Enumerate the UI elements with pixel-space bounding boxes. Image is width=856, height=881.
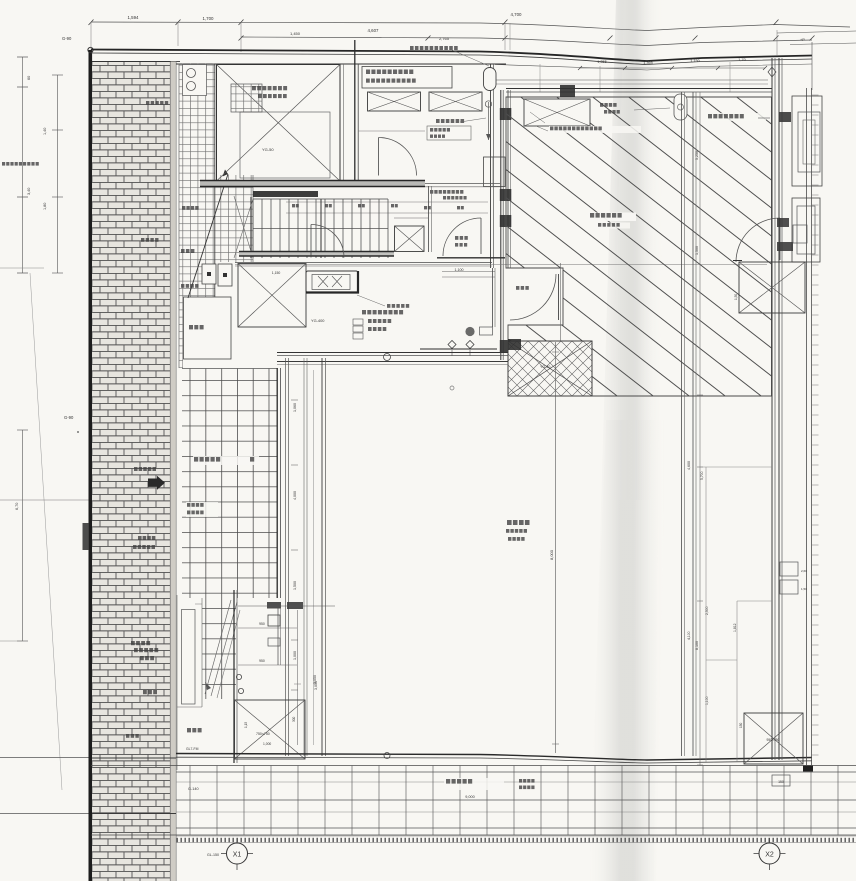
brick wall annotations (126, 101, 168, 738)
svg-text:2,60: 2,60 (801, 569, 807, 573)
corridor walls right of stairs (394, 186, 432, 252)
lift space label (706, 113, 770, 121)
page fold crease shadow (588, 0, 666, 881)
svg-text:1,50: 1,50 (801, 587, 807, 591)
porch fine tile strip (179, 64, 253, 369)
crossed tile box below lightwell (508, 341, 592, 396)
stair treads (234, 191, 488, 258)
courtyard boundary top (277, 339, 521, 390)
courtyard label (506, 520, 530, 541)
corridor wall x500-511 with blocks (484, 90, 512, 360)
svg-text:6,70: 6,70 (15, 503, 19, 510)
svg-text:8,100: 8,100 (695, 641, 699, 650)
svg-text:1,70: 1,70 (738, 58, 745, 62)
svg-text:300: 300 (292, 716, 296, 722)
svg-text:+P: +P (800, 38, 805, 42)
approach label (186, 456, 259, 517)
svg-text:4,600: 4,600 (687, 461, 691, 470)
svg-text:1,80: 1,80 (43, 203, 47, 210)
diagonal hatched lightwell region (506, 85, 772, 396)
right nested rooms top (779, 96, 822, 262)
EV crossed box (734, 262, 805, 313)
pocket with door arc (into lightwell) (510, 263, 563, 341)
courtyard east wall lines (682, 92, 697, 756)
svg-text:1,060: 1,060 (293, 403, 297, 412)
pedestrian road tiles (91, 766, 856, 836)
south approach ramp (202, 598, 240, 699)
svg-text:4,100: 4,100 (687, 631, 691, 640)
right double walls (772, 58, 782, 760)
storage crossed box middle-left (238, 264, 325, 328)
svg-text:1,50: 1,50 (734, 294, 738, 300)
dotted curb band (176, 836, 856, 843)
svg-text:1,812: 1,812 (733, 623, 737, 632)
svg-text:YG-400: YG-400 (311, 318, 325, 323)
svg-text:950×950: 950×950 (767, 738, 780, 742)
right small meter boxes (780, 562, 807, 594)
svg-text:GL-150: GL-150 (207, 853, 219, 857)
svg-text:1,450: 1,450 (290, 31, 301, 36)
brick wall strip (west elevation) (92, 62, 180, 881)
grid reference circle X1 (207, 838, 253, 870)
svg-text:1,100: 1,100 (705, 696, 709, 705)
interior wall band above stairs (200, 181, 500, 200)
svg-text:3,40: 3,40 (27, 188, 31, 195)
svg-text:60: 60 (27, 76, 31, 80)
svg-text:1,500: 1,500 (695, 246, 699, 255)
svg-text:YG-40: YG-40 (540, 365, 550, 369)
svg-text:150: 150 (739, 722, 743, 728)
stair dimension blobs (292, 204, 464, 209)
svg-text:4,700: 4,700 (511, 12, 523, 17)
svg-text:G-140: G-140 (188, 787, 199, 791)
svg-text:1,40: 1,40 (43, 128, 47, 135)
stair bottom wall (239, 252, 394, 257)
dumbwaiter crossed box (395, 226, 425, 252)
svg-text:G-90: G-90 (62, 36, 72, 41)
lightwell label (588, 213, 636, 229)
courtyard west wall lines (286, 358, 326, 756)
stair door arc (311, 225, 344, 258)
svg-text:1,15: 1,15 (244, 722, 248, 728)
svg-text:9,000: 9,000 (465, 795, 475, 799)
svg-text:1,000: 1,000 (263, 742, 271, 746)
courtyard bottom wall (176, 753, 812, 764)
svg-text:950: 950 (259, 622, 265, 626)
top dimension rows (89, 12, 851, 70)
svg-text:1,700: 1,700 (203, 16, 215, 21)
road labels (186, 747, 535, 799)
door arc to east room (437, 218, 505, 258)
svg-text:2,765: 2,765 (439, 36, 450, 41)
entrance arrow (148, 476, 165, 490)
garbage place labels (272, 268, 495, 356)
room1 bike storage with X brace (217, 65, 341, 182)
svg-text:4,000: 4,000 (293, 491, 297, 500)
right door arc (733, 218, 807, 262)
svg-text:GL7-FM: GL7-FM (186, 747, 199, 751)
svg-text:4,607: 4,607 (368, 28, 380, 33)
long leader label under top wall (530, 112, 641, 133)
rooms top wall y64 (176, 62, 506, 65)
courtyard centre dim line (549, 342, 559, 753)
svg-text:X1: X1 (233, 852, 242, 859)
sunken planter box (184, 297, 232, 359)
svg-text:5,700: 5,700 (700, 471, 704, 480)
svg-text:1,500: 1,500 (293, 581, 297, 590)
svg-text:5,250: 5,250 (695, 151, 699, 160)
right boundary wall with ticks (807, 88, 819, 765)
west corridor outline (177, 595, 202, 770)
svg-text:YG-50: YG-50 (262, 147, 274, 152)
approach walkway tiles (182, 368, 281, 598)
svg-text:2,500: 2,500 (705, 606, 709, 615)
room2 with planters and text box (344, 40, 497, 268)
svg-text:150: 150 (778, 780, 784, 784)
svg-text:8,000: 8,000 (549, 549, 554, 560)
svg-text:750×750: 750×750 (256, 732, 270, 736)
svg-text:1,150: 1,150 (272, 271, 281, 275)
svg-text:G-90: G-90 (64, 415, 74, 420)
zone boundary below stairs (235, 263, 767, 267)
rain pipe label (600, 103, 670, 114)
left margin dimension lines (0, 36, 176, 814)
svg-text:1,594: 1,594 (128, 15, 140, 20)
svg-text:950: 950 (259, 659, 265, 663)
svg-text:3,050: 3,050 (313, 675, 317, 684)
right dimension lines (687, 92, 772, 765)
site boundary thick line (left) (88, 47, 93, 881)
grid reference circle X2 (754, 838, 786, 870)
vent pipe in hatch (674, 94, 687, 120)
svg-text:1,000: 1,000 (293, 651, 297, 660)
bottom-right crossed box (739, 713, 813, 786)
upper wall lines right section (495, 62, 768, 92)
planting crossed box bottom-left (235, 700, 306, 759)
top boundary wall (double line with crease dip) (91, 30, 856, 90)
service wall and fittings (234, 590, 335, 763)
svg-text:X2: X2 (765, 852, 774, 859)
